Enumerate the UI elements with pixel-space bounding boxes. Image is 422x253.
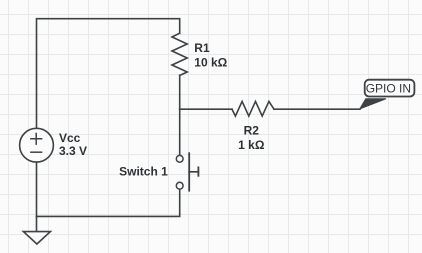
switch SW1 plunger cap [197, 167, 199, 175]
svg-text:R1: R1 [194, 41, 210, 55]
svg-text:3.3 V: 3.3 V [59, 144, 87, 158]
GPIO IN callout box [365, 80, 415, 97]
switch SW1 top terminal circle [176, 155, 183, 162]
switch SW1 bottom terminal circle [176, 182, 183, 189]
switch SW1 plunger stem [189, 171, 198, 173]
wire: node A to R2 left [180, 108, 232, 110]
wire: node A down to switch top terminal [179, 109, 181, 155]
wire: R1 bottom to node A [179, 75, 181, 109]
wire: voltage source bottom to rail junction [36, 162, 38, 216]
ground symbol [23, 232, 50, 244]
svg-text:R2: R2 [244, 123, 260, 137]
svg-text:GPIO IN: GPIO IN [366, 82, 411, 96]
switch SW1 contact bar [188, 153, 190, 191]
svg-text:Vcc: Vcc [59, 131, 81, 145]
svg-text:1 kΩ: 1 kΩ [238, 138, 265, 152]
voltage source V1 circle [20, 128, 54, 162]
resistor R1 [172, 33, 187, 75]
wire: Vcc top to top-left corner to R1 top [37, 19, 180, 129]
svg-text:Switch 1: Switch 1 [119, 164, 168, 178]
wire: R2 right to GPIO IN callout [274, 108, 360, 110]
wire: rail junction down to ground [36, 216, 38, 231]
voltage source plus sign [31, 134, 42, 145]
svg-text:10 kΩ: 10 kΩ [194, 56, 227, 70]
GPIO IN callout tail [360, 99, 386, 109]
resistor R2 [232, 101, 274, 116]
voltage source minus sign [31, 151, 42, 153]
wire: switch bottom to bottom rail corner [37, 190, 180, 217]
